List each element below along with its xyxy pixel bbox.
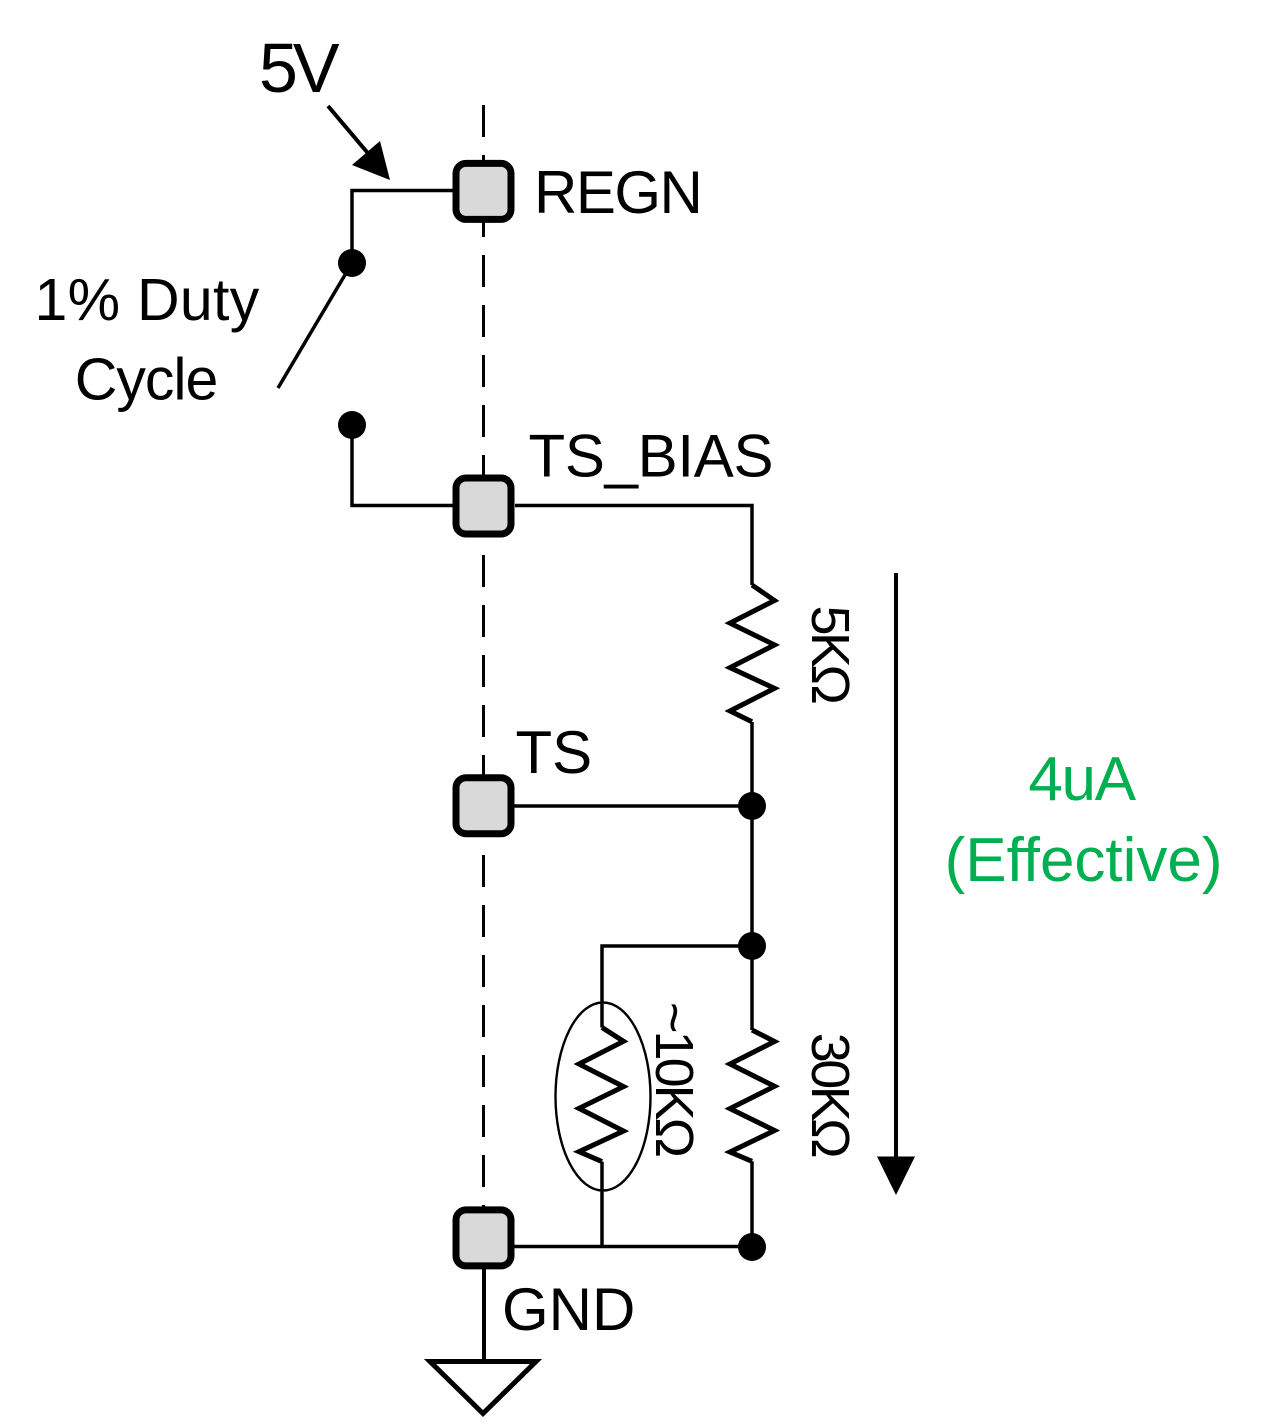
svg-text:(Effective): (Effective) [945, 826, 1223, 895]
wire 30K bottom to GND node [750, 1161, 754, 1247]
svg-text:TS_BIAS: TS_BIAS [529, 423, 774, 490]
thermistor ellipse [556, 1003, 651, 1191]
junction dot GND node [738, 1233, 766, 1261]
label 1% Duty Cycle [34, 267, 259, 413]
svg-text:5KΩ: 5KΩ [800, 606, 860, 704]
svg-text:REGN: REGN [534, 159, 701, 226]
pin GND [456, 1210, 511, 1266]
junction dot switch top [338, 249, 366, 277]
junction dot thermistor branch [738, 932, 766, 960]
wire switch bottom to TS_BIAS [352, 424, 453, 506]
resistor 5K zigzag [730, 585, 775, 722]
wire GND pin to ground symbol [482, 1268, 486, 1361]
label 4uA (Effective) [945, 745, 1223, 895]
junction dot switch bottom [338, 411, 366, 439]
svg-text:4uA: 4uA [1028, 745, 1136, 814]
wire thermistor bottom [600, 1162, 604, 1247]
svg-text:5V: 5V [259, 29, 340, 107]
svg-text:30KΩ: 30KΩ [800, 1033, 860, 1158]
svg-text:GND: GND [502, 1276, 635, 1343]
svg-text:Cycle: Cycle [75, 347, 218, 413]
pin REGN [456, 163, 511, 219]
svg-text:~10KΩ: ~10KΩ [644, 1002, 704, 1157]
svg-text:1% Duty: 1% Duty [34, 267, 259, 333]
pin TS [456, 778, 511, 834]
5V pointer arrow [328, 106, 390, 180]
dashed net line through pins [482, 105, 485, 1207]
wire TS_BIAS to resistor 5K [515, 506, 752, 586]
wire 5K bottom to TS junction and down [750, 722, 754, 946]
wire junction to resistor 30K [750, 946, 754, 1030]
junction dot TS node [738, 792, 766, 820]
wire REGN to switch top [352, 191, 453, 263]
wire TS to junction [514, 804, 752, 808]
pin TS_BIAS [456, 478, 511, 534]
wire GND pin to bottom node [514, 1245, 752, 1249]
ground symbol [430, 1362, 536, 1414]
current direction arrow 4uA [877, 573, 915, 1195]
wire branch to thermistor [602, 946, 752, 1028]
resistor 30K zigzag [730, 1030, 775, 1161]
switch blade (1% duty cycle) [278, 263, 352, 388]
svg-text:TS: TS [516, 719, 593, 786]
thermistor ~10K zigzag [579, 1028, 624, 1162]
